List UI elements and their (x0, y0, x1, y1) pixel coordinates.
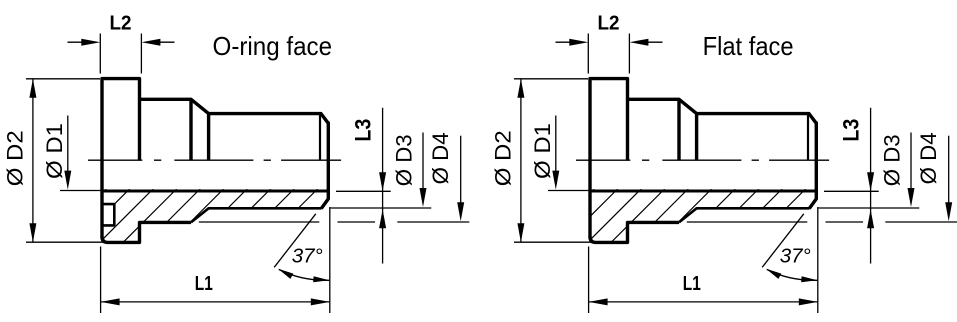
extension line A (bore level) (824, 190, 879, 192)
svg-text:Ø D3: Ø D3 (391, 134, 416, 186)
section hatching (45 deg) (514, 184, 858, 246)
section outline (bottom half, flange and step) (590, 222, 679, 242)
svg-text:Ø D4: Ø D4 (428, 132, 453, 184)
dimension &#216; D2 (flange diameter) (26, 79, 103, 242)
svg-text:Ø D3: Ø D3 (879, 134, 904, 186)
dimension L3 (382, 108, 384, 264)
fitting outer profile (top half) (590, 79, 816, 238)
svg-text:Ø D4: Ø D4 (916, 132, 941, 184)
centerline (axis, dash-dot) (576, 159, 829, 161)
svg-text:L3: L3 (351, 119, 376, 142)
centerline (axis, dash-dot) (88, 159, 341, 161)
37 degree flare angle dimension (274, 214, 316, 267)
dimension &#216; D1 (bore diameter) (60, 116, 100, 191)
extension line B (outer small diameter level) (819, 207, 920, 209)
dimension L1 (overall length) (101, 207, 330, 313)
svg-text:O-ring face: O-ring face (213, 31, 333, 61)
right drawing: Flat face version (491, 11, 957, 313)
svg-text:L2: L2 (110, 11, 132, 34)
svg-text:Ø D1: Ø D1 (530, 123, 555, 179)
flare cone base edge line (319, 114, 321, 161)
svg-text:Ø D1: Ø D1 (42, 123, 67, 179)
O-ring groove (102, 204, 114, 225)
svg-text:L1: L1 (195, 272, 213, 295)
section hatching (45 deg) (26, 184, 370, 246)
fitting outer profile (top half) (102, 79, 328, 238)
37 degree flare angle dimension (762, 214, 804, 267)
svg-text:Flat face: Flat face (703, 31, 794, 61)
dimension &#216; D2 (flange diameter) (514, 79, 591, 242)
dimension L2 (flange width) (68, 34, 175, 74)
flare cone base edge line (807, 114, 809, 161)
end face edge (809, 122, 816, 209)
extension line B (outer small diameter level) (331, 207, 432, 209)
left drawing: O-ring face version (3, 11, 470, 313)
extension line A (bore level) (336, 190, 391, 192)
dimension L1 (overall length) (589, 207, 818, 313)
dimension &#216; D3 (910, 133, 912, 201)
svg-text:37°: 37° (292, 245, 323, 268)
section outline (bottom half, flange and step) (102, 222, 191, 242)
svg-text:L2: L2 (598, 11, 620, 34)
dimension L3 (870, 108, 872, 264)
svg-text:L3: L3 (839, 119, 864, 142)
bore line (section inner edge) (102, 190, 328, 193)
svg-text:Ø D2: Ø D2 (3, 130, 28, 186)
dimension L2 (flange width) (556, 34, 663, 74)
end face edge (321, 122, 328, 209)
svg-text:Ø D2: Ø D2 (491, 130, 516, 186)
extension line C (second diameter level) (199, 221, 470, 223)
section outline (taper and outer line) (679, 208, 810, 222)
svg-text:L1: L1 (683, 272, 701, 295)
dimension &#216; D4 (948, 136, 950, 214)
svg-text:37°: 37° (780, 245, 811, 268)
dimension &#216; D1 (bore diameter) (548, 116, 588, 191)
section outline (taper and outer line) (191, 208, 322, 222)
dimension &#216; D3 (422, 133, 424, 201)
dimension &#216; D4 (460, 136, 462, 214)
bore line (section inner edge) (590, 190, 816, 193)
extension line C (second diameter level) (687, 221, 957, 223)
